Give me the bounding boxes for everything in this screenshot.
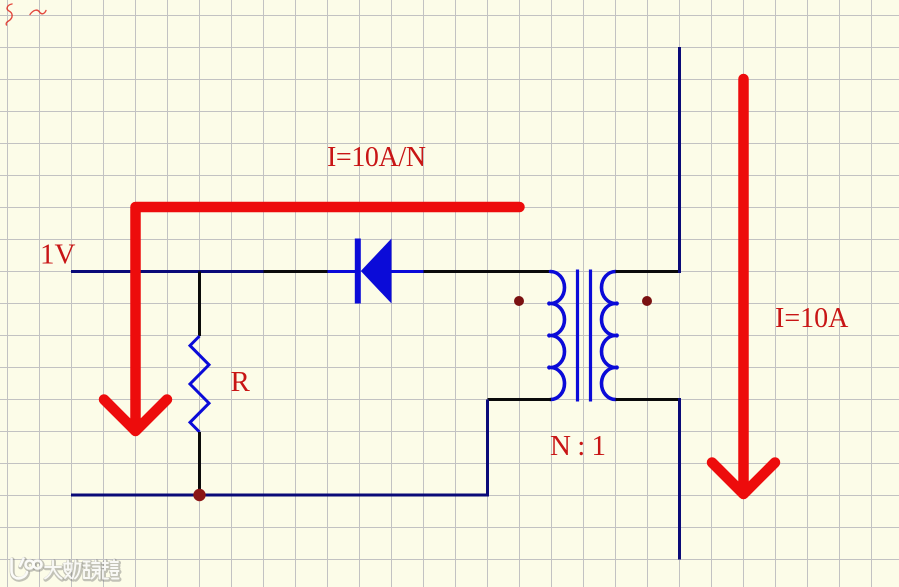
wire: right rail lower vertical (navy) <box>678 398 681 560</box>
wire: top horizontal navy segment from 1V source <box>71 270 264 273</box>
svg-text:I=10A: I=10A <box>775 303 849 334</box>
wire: primary bottom horizontal (black) <box>488 398 552 401</box>
wire: secondary bottom to right rail (black) <box>616 398 680 401</box>
faint red scribble mark top-left 1 <box>6 4 12 25</box>
wire: top horizontal black segment before diode <box>264 270 328 273</box>
faint red scribble mark top-left 2 <box>30 10 46 14</box>
current arrow I=10A (red, right side) <box>712 79 775 494</box>
current arrow I=10A/N (red) <box>104 207 520 431</box>
wire: diode anode lead (blue) <box>328 270 357 273</box>
wire: bottom return navy with corner up to primary bottom <box>71 400 488 496</box>
svg-text:N : 1: N : 1 <box>550 430 606 462</box>
wire: diode to transformer primary top (black) <box>424 270 552 273</box>
primary winding cusp nubs <box>547 301 551 305</box>
transformer T1 core line right <box>589 270 592 402</box>
wire: resistor branch lower (black) <box>198 432 201 495</box>
wire: resistor branch upper (black) <box>198 272 201 337</box>
polarity dot secondary <box>642 296 652 306</box>
watermark text 大数跨境 <box>45 560 119 579</box>
wire: right rail upper vertical (navy) <box>678 47 681 273</box>
diode D1 cathode bar <box>355 239 361 304</box>
svg-text:1V: 1V <box>40 239 76 271</box>
junction dot on bottom wire <box>193 489 205 501</box>
secondary winding cusp nubs <box>615 301 619 305</box>
polarity dot primary <box>514 296 524 306</box>
svg-text:R: R <box>231 366 251 398</box>
svg-text:I=10A/N: I=10A/N <box>327 142 426 173</box>
transformer T1 core line left <box>576 270 579 402</box>
wire: secondary top to right rail (black) <box>616 270 680 273</box>
wire: diode cathode lead (blue) <box>392 270 424 273</box>
watermark logo K100 <box>12 559 43 580</box>
transformer T1 secondary winding <box>602 272 616 400</box>
diode D1 triangle <box>361 239 392 304</box>
resistor R zigzag <box>190 336 209 432</box>
transformer T1 primary winding <box>551 272 565 400</box>
